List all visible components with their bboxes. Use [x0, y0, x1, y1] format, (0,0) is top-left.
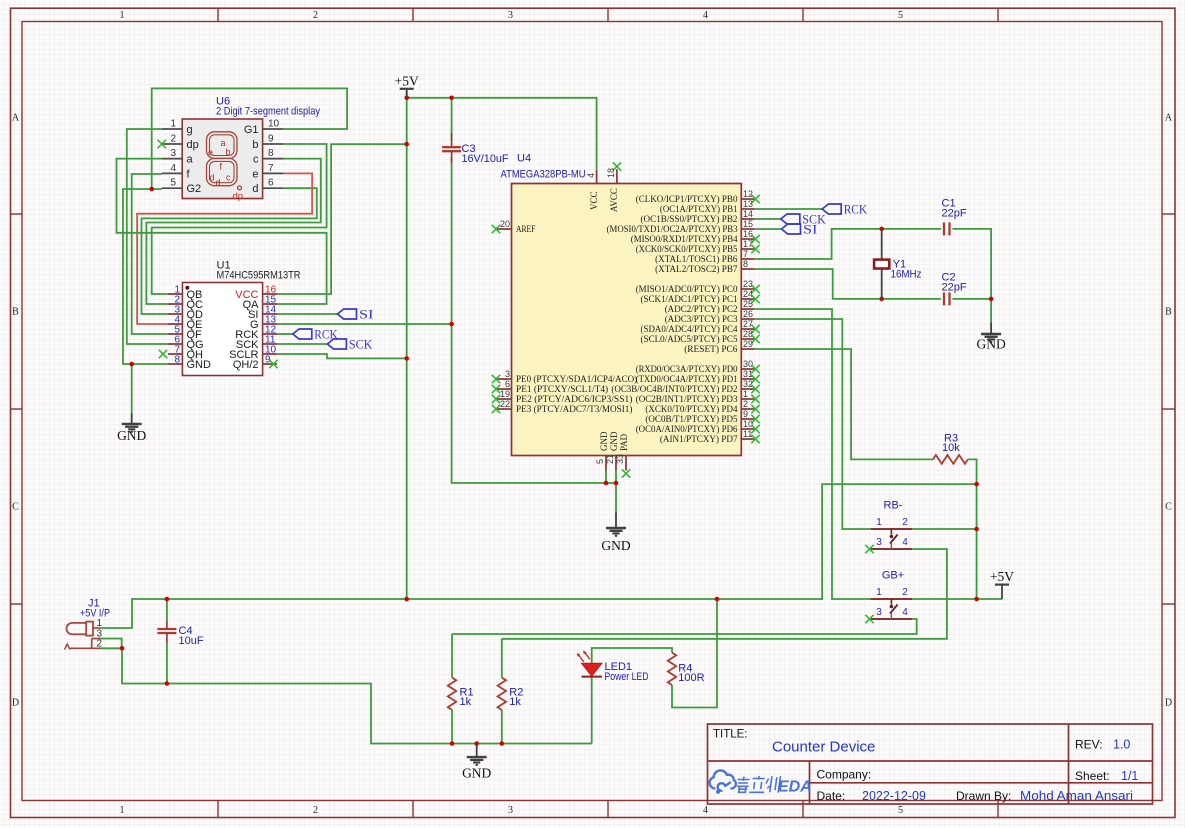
net flag SI at U1 [338, 309, 357, 319]
svg-text:4: 4 [703, 805, 708, 816]
U4 pin 7 PB6 [741, 258, 754, 260]
svg-text:D: D [12, 698, 19, 709]
push button RB- [871, 528, 913, 530]
U4 pin 24 PC1 [741, 298, 754, 300]
U6 pin 7 e [263, 172, 284, 174]
svg-text:(SDA0/ADC4/PTCY) PC4: (SDA0/ADC4/PTCY) PC4 [641, 324, 738, 335]
svg-text:1/1: 1/1 [1121, 769, 1138, 783]
svg-text:14: 14 [743, 209, 753, 219]
svg-text:1k: 1k [509, 696, 521, 708]
svg-text:+5V I/P: +5V I/P [80, 608, 110, 620]
U1 pin 4 QE [168, 323, 182, 325]
svg-text:(OC0B/T1/PTCXY) PD5: (OC0B/T1/PTCXY) PD5 [645, 414, 737, 425]
svg-text:16: 16 [743, 229, 753, 239]
wire U1.SCLR to +5V rail [277, 354, 407, 358]
U1 pin 6 QG [168, 343, 182, 345]
capacitor C1 22pF [943, 222, 945, 235]
U1 pin 7 QH [168, 353, 182, 355]
svg-text:17: 17 [743, 239, 753, 249]
svg-text:5: 5 [595, 459, 605, 464]
svg-text:16V/10uF: 16V/10uF [462, 153, 509, 165]
junction right +5V column / RB- [974, 527, 979, 532]
junction U1 GND node [129, 362, 134, 367]
wire RB- row wire from +5V column [912, 528, 976, 530]
svg-text:11: 11 [743, 429, 752, 439]
svg-text:dp: dp [187, 139, 199, 151]
LED1 Power LED [582, 663, 602, 676]
svg-text:1: 1 [876, 517, 882, 528]
svg-text:GND: GND [599, 431, 609, 451]
ground bus from J1 pins 2-3 [101, 639, 122, 649]
svg-text:Sheet:: Sheet: [1075, 769, 1110, 783]
svg-text:d: d [216, 178, 221, 188]
R1 leads [451, 634, 453, 678]
svg-text:(OC0A/AIN0/PTCXY) PD6: (OC0A/AIN0/PTCXY) PD6 [636, 424, 738, 435]
svg-text:b: b [252, 139, 258, 151]
svg-text:PE3 (PTCY/ADC7/T3/MOSI1): PE3 (PTCY/ADC7/T3/MOSI1) [516, 404, 632, 415]
U1 pin 12 RCK [263, 333, 277, 335]
capacitor C4 10uF [166, 621, 168, 630]
wire U1.SCK to flag [277, 343, 327, 345]
U4 pin 5 GND bottom [605, 456, 607, 471]
U1 pin 3 QD [168, 313, 182, 315]
svg-text:2: 2 [313, 10, 318, 21]
svg-text:(OC1B/SS0/PTCXY) PB2: (OC1B/SS0/PTCXY) PB2 [641, 214, 738, 225]
svg-text:dp: dp [233, 191, 244, 202]
svg-text:(XCK0/T0/PTCXY) PD4: (XCK0/T0/PTCXY) PD4 [645, 404, 737, 415]
svg-text:M74HC595RM13TR: M74HC595RM13TR [217, 270, 301, 282]
wire crystal bottom right of C2 [953, 298, 992, 300]
wire U1.G to C3 ground rail [277, 323, 452, 325]
U6 pin 5 G2 [162, 187, 182, 189]
svg-text:SI: SI [359, 308, 374, 322]
svg-text:g: g [187, 124, 193, 136]
junction C3 top [449, 96, 454, 101]
crystal Y1 16MHz [881, 229, 883, 260]
junction U4 GND pin 21 [614, 481, 619, 486]
U1 M74HC595RM13TR shift register symbol [182, 283, 262, 376]
svg-text:22pF: 22pF [942, 208, 967, 220]
U4 pin 8 PB7 [741, 268, 754, 270]
U1 QH no-connect X [159, 350, 167, 358]
svg-text:26: 26 [743, 309, 753, 319]
ground symbol bottom bus [476, 744, 478, 758]
junction right +5V column / bus [974, 482, 979, 487]
U4 pin 19 PE2 [497, 398, 512, 400]
capacitor C2 22pF [943, 292, 945, 305]
junction R2 / gnd bus [500, 741, 505, 746]
wire U6.c to U1.QC [146, 159, 320, 304]
wire U6.f to U1.QF [132, 174, 168, 334]
svg-text:22: 22 [500, 399, 510, 409]
svg-text:19: 19 [500, 389, 510, 399]
svg-text:4: 4 [703, 10, 708, 21]
net flag RCK at U1 [293, 329, 312, 339]
wire U4.XTAL1 to crystal top [755, 229, 941, 259]
title block [708, 724, 1153, 804]
wire U4.PC2 to GB+ pin1 [755, 309, 871, 599]
svg-text:(ADC3/PTCY) PC3: (ADC3/PTCY) PC3 [665, 314, 738, 325]
junction gnd symbol / gnd bus [474, 741, 479, 746]
svg-text:C: C [1165, 502, 1172, 513]
U4 pin 6 PE1 [497, 388, 512, 390]
svg-text:16MHz: 16MHz [891, 269, 922, 281]
C3 lower rail down to U4 ground wire [452, 158, 616, 484]
svg-text:Counter Device: Counter Device [772, 739, 875, 756]
R2 leads [501, 639, 503, 678]
svg-text:8: 8 [174, 355, 180, 366]
svg-text:(RXD0/OC3A/PTCXY) PD0: (RXD0/OC3A/PTCXY) PD0 [636, 364, 738, 375]
U6 pin 6 d [263, 187, 284, 189]
svg-text:1.0: 1.0 [1113, 738, 1130, 752]
junction C4 bottom [165, 681, 170, 686]
svg-text:(MISO1/ADC0/PTCY) PC0: (MISO1/ADC0/PTCY) PC0 [636, 284, 738, 295]
svg-text:15: 15 [743, 219, 753, 229]
push button GB+ [871, 598, 913, 600]
svg-text:(MOSI0/TXD1/OC2A/PTCXY) PB3: (MOSI0/TXD1/OC2A/PTCXY) PB3 [607, 224, 738, 235]
svg-text:GND: GND [117, 428, 146, 443]
U1 pin 13 G [263, 323, 277, 325]
svg-text:8: 8 [743, 259, 748, 269]
resistor R2 1k [498, 678, 506, 710]
svg-text:(RESET) PC6: (RESET) PC6 [684, 344, 738, 355]
wire RB- pin4 down to R2 [502, 549, 947, 639]
svg-text:C: C [12, 502, 19, 513]
wire U6.a to U1.QA [117, 159, 327, 304]
capacitor C3 16V/10uF [451, 133, 453, 147]
svg-text:2: 2 [170, 134, 176, 145]
junction bus / R4 branch [715, 597, 720, 602]
svg-text:1: 1 [96, 618, 102, 629]
U4 pin 30 PD0 [741, 368, 754, 370]
svg-text:3: 3 [508, 10, 513, 21]
U1 QH/2 no-connect X [269, 360, 277, 368]
svg-text:(TXD0/OC4A/PTCXY) PD1: (TXD0/OC4A/PTCXY) PD1 [636, 374, 738, 385]
wire GB+ pin2 to +5V junction and symbol [912, 598, 1002, 600]
U1 pin 10 SCLR [263, 353, 277, 355]
svg-text:3: 3 [876, 537, 882, 548]
svg-text:B: B [1165, 307, 1172, 318]
U4 pin 31 PD1 [741, 378, 754, 380]
U4 pin 21 GND bottom [615, 456, 617, 471]
svg-text:33: 33 [615, 454, 625, 464]
svg-text:3: 3 [505, 369, 510, 379]
svg-text:7: 7 [743, 249, 748, 259]
svg-text:U4: U4 [517, 153, 531, 165]
svg-text:RCK: RCK [844, 203, 868, 217]
svg-text:1: 1 [170, 119, 176, 130]
svg-text:(SCL0/ADC5/PTCY) PC5: (SCL0/ADC5/PTCY) PC5 [641, 334, 738, 345]
svg-text:10: 10 [743, 419, 753, 429]
svg-text:c: c [226, 173, 231, 183]
svg-text:GND: GND [601, 538, 630, 553]
junction +5V rail / bottom bus [404, 597, 409, 602]
wire U6.d to U1.QD [142, 188, 317, 314]
resistor R1 1k [448, 678, 456, 710]
svg-text:1: 1 [120, 805, 125, 816]
wire U1.RCK to flag [277, 333, 293, 335]
svg-text:+5V: +5V [990, 569, 1014, 584]
ground symbol below U1 [131, 414, 133, 424]
svg-text:d: d [252, 183, 258, 195]
svg-text:VCC: VCC [589, 191, 599, 210]
svg-text:GND: GND [462, 766, 491, 781]
svg-text:A: A [1165, 113, 1173, 124]
svg-text:(XTAL2/TOSC2) PB7: (XTAL2/TOSC2) PB7 [655, 264, 738, 275]
svg-text:REV:: REV: [1075, 738, 1103, 752]
svg-text:2 Digit 7-segment display: 2 Digit 7-segment display [216, 106, 320, 118]
C3 upper lead wire [451, 98, 453, 141]
svg-text:9: 9 [268, 134, 274, 145]
U6 pin 10 G1 [263, 128, 284, 130]
svg-text:PAD: PAD [619, 433, 629, 451]
U4 pin 4 VCC top [596, 169, 598, 183]
U1 pin 5 QF [168, 333, 182, 335]
svg-text:1: 1 [876, 587, 882, 598]
svg-text:6: 6 [505, 379, 510, 389]
U6 pin 9 b [263, 143, 284, 145]
net flag RCK at U4 PB1 [822, 204, 841, 214]
junction C4 top [165, 597, 170, 602]
svg-text:25: 25 [743, 299, 753, 309]
svg-text:Mohd Aman Ansari: Mohd Aman Ansari [1020, 789, 1133, 803]
svg-text:PE0 (PTCXY/SDA1/ICP4/ACO): PE0 (PTCXY/SDA1/ICP4/ACO) [516, 374, 637, 385]
svg-text:100R: 100R [678, 672, 704, 684]
svg-text:c: c [253, 154, 259, 166]
red wire U6.e to U1.QE [137, 173, 312, 324]
svg-text:5: 5 [898, 805, 903, 816]
U4 pin 12 PB0 [741, 198, 754, 200]
U1 gnd symbol drop [131, 364, 133, 414]
svg-text:GND: GND [609, 431, 619, 451]
U1 pin 14 SI [263, 313, 277, 315]
svg-text:(XCK0/SCK0/PTCXY) PB5: (XCK0/SCK0/PTCXY) PB5 [636, 244, 738, 255]
svg-text:(OC2B/INT1/PTCXY) PD3: (OC2B/INT1/PTCXY) PD3 [636, 394, 738, 405]
svg-text:4: 4 [902, 607, 908, 618]
U4 gnd symbol drop [615, 483, 617, 513]
U4 pin 9 PD5 [741, 418, 754, 420]
U4 pin 14 PB2 [741, 218, 754, 220]
svg-text:28: 28 [743, 329, 753, 339]
svg-text:TITLE:: TITLE: [713, 729, 748, 741]
wire U6.g to U1.QG [127, 129, 168, 344]
junction +5V rail / VCC branch [404, 142, 409, 147]
svg-text:(MISO0/RXD1/PTCXY) PB4: (MISO0/RXD1/PTCXY) PB4 [631, 234, 738, 245]
svg-text:21: 21 [605, 454, 615, 464]
U4 pin 29 PC6 [741, 348, 754, 350]
svg-text:GB+: GB+ [882, 570, 904, 582]
U4 pin 33 PAD bottom [625, 456, 627, 471]
junction right +5V column / GB+ [974, 597, 979, 602]
svg-text:10k: 10k [942, 442, 960, 454]
wire U4.PB1 to RCK flag [755, 208, 823, 210]
junction +5V rail / SCLR [404, 356, 409, 361]
svg-text:2: 2 [96, 639, 102, 650]
svg-text:GND: GND [187, 359, 212, 371]
LED top wire over to R4 and down to bus junction [592, 648, 672, 663]
svg-text:2: 2 [743, 399, 748, 409]
U6 dp no-connect X [158, 140, 166, 148]
svg-text:GND: GND [976, 337, 1005, 352]
svg-text:22pF: 22pF [942, 282, 967, 294]
net flag SI at U4 PB3 [782, 224, 801, 234]
svg-text:(OC3B/OC4B/INT0/PTCXY) PD2: (OC3B/OC4B/INT0/PTCXY) PD2 [611, 384, 737, 395]
svg-text:27: 27 [743, 319, 753, 329]
svg-text:RB-: RB- [884, 500, 903, 512]
wire U4.PB2 to SCK flag [755, 218, 781, 220]
U6 pin 4 f [162, 172, 182, 174]
U4 pin 18 AVCC top [616, 169, 618, 183]
U1 pin 11 SCK [263, 343, 277, 345]
junction crystal top [879, 227, 884, 232]
U4 pin 15 PB3 [741, 228, 754, 230]
wire U4.PB3 to SI flag [755, 228, 782, 230]
U4 GND pin drops [605, 471, 607, 484]
+5V vertical rail down to bottom bus [406, 91, 408, 599]
svg-text:AVCC: AVCC [609, 188, 619, 212]
svg-text:(ADC2/PTCY) PC2: (ADC2/PTCY) PC2 [665, 304, 738, 315]
svg-text:QH/2: QH/2 [233, 359, 259, 371]
svg-text:(AIN1/PTCXY) PD7: (AIN1/PTCXY) PD7 [660, 434, 738, 445]
svg-text:(SCK1/ADC1/PTCY) PC1: (SCK1/ADC1/PTCY) PC1 [641, 294, 738, 305]
svg-text:a: a [187, 154, 194, 166]
wire U6.b to U1.QB [152, 144, 327, 294]
U4 pin 10 PD6 [741, 428, 754, 430]
U4 pin 1 PD3 [741, 398, 754, 400]
svg-text:24: 24 [743, 289, 753, 299]
svg-text:4: 4 [170, 163, 176, 174]
svg-text:PE2 (PTCY/ADC6/ICP3/SS1): PE2 (PTCY/ADC6/ICP3/SS1) [516, 394, 632, 405]
main +5V bus from J1 pin1 up over to right rail [101, 484, 977, 628]
svg-text:1: 1 [120, 10, 125, 21]
svg-text:PE1 (PTCXY/SCL1/T4): PE1 (PTCXY/SCL1/T4) [516, 384, 608, 395]
svg-text:2022-12-09: 2022-12-09 [862, 789, 926, 803]
U6 pin 8 c [263, 158, 284, 160]
svg-text:29: 29 [743, 339, 753, 349]
junction C2 gnd [989, 297, 994, 302]
U4 pin 25 PC2 [741, 308, 754, 310]
junction crystal bottom [879, 297, 884, 302]
U4 pin 16 PB4 [741, 238, 754, 240]
U1 pin 1 QB [168, 293, 182, 295]
wire U4.XTAL2 to crystal bottom [755, 269, 941, 299]
U4 pin 17 PB5 [741, 248, 754, 250]
svg-text:13: 13 [743, 199, 753, 209]
U4 pin 26 PC3 [741, 318, 754, 320]
svg-text:23: 23 [743, 279, 753, 289]
junction U4 GND pin 5 [604, 481, 609, 486]
svg-text:9: 9 [743, 409, 748, 419]
svg-text:31: 31 [743, 369, 753, 379]
net flag SCK at U4 PB2 [781, 214, 800, 224]
U4 pin 20 AREF [497, 228, 512, 230]
crystal gnd drop [990, 299, 992, 323]
svg-text:(OC1A/PTCXY) PB1: (OC1A/PTCXY) PB1 [660, 204, 738, 215]
wire U1.SI to flag [277, 313, 338, 315]
junction G / C3 gnd rail [449, 322, 454, 327]
svg-text:e: e [252, 168, 258, 180]
JLC EDA logo [710, 770, 736, 790]
U6 2 digit 7-segment display symbol [182, 119, 262, 199]
U4 pin 32 PD2 [741, 388, 754, 390]
svg-text:Drawn By:: Drawn By: [956, 789, 1011, 803]
svg-text:ATMEGA328PB-MU: ATMEGA328PB-MU [501, 169, 586, 181]
svg-text:3: 3 [170, 148, 176, 159]
U1 pin 9 QH/2 [263, 363, 277, 365]
svg-text:AREF: AREF [516, 225, 535, 235]
C4 top lead [166, 599, 168, 621]
svg-text:3: 3 [508, 805, 513, 816]
wire R3 right to +5V column [968, 459, 977, 599]
svg-text:18: 18 [606, 168, 616, 178]
net flag SCK at U1 [327, 339, 346, 349]
C4 bottom lead [166, 644, 168, 684]
svg-text:SCK: SCK [349, 338, 373, 352]
svg-text:32: 32 [743, 379, 753, 389]
svg-text:3: 3 [876, 607, 882, 618]
svg-text:G2: G2 [187, 183, 202, 195]
U1 pin 15 QA [263, 303, 277, 305]
svg-text:+5V: +5V [395, 73, 419, 88]
svg-text:(CLKO/ICP1/PTCXY) PB0: (CLKO/ICP1/PTCXY) PB0 [636, 194, 738, 205]
U4 pin 27 PC4 [741, 328, 754, 330]
svg-text:4: 4 [902, 537, 908, 548]
svg-text:SI: SI [803, 223, 818, 237]
wire U4.PC3 to RB- pin1 [755, 319, 871, 529]
resistor R4 100R [668, 653, 676, 685]
svg-text:2: 2 [902, 587, 908, 598]
U4 pin 28 PC5 [741, 338, 754, 340]
svg-text:A: A [12, 113, 20, 124]
U4 pin 3 PE0 [497, 378, 512, 380]
svg-text:(XTAL1/TOSC1) PB6: (XTAL1/TOSC1) PB6 [655, 254, 738, 265]
svg-text:2: 2 [902, 517, 908, 528]
svg-text:D: D [1165, 698, 1172, 709]
junction J1 ground node [120, 646, 125, 651]
wire +5V rail to U4 VCC pin [407, 98, 597, 170]
svg-text:10: 10 [268, 119, 280, 130]
junction +5V rail top [404, 96, 409, 101]
svg-text:EDA: EDA [778, 779, 812, 796]
U4 pin 23 PC0 [741, 288, 754, 290]
svg-text:Company:: Company: [817, 768, 872, 782]
svg-text:5: 5 [170, 178, 176, 189]
wire GB+ pin4 down to R1 [452, 619, 917, 634]
svg-text:2: 2 [313, 805, 318, 816]
wire crystal top right of C1 [953, 229, 992, 299]
svg-text:1k: 1k [460, 696, 472, 708]
U4 pin 2 PD4 [741, 408, 754, 410]
wire U6.G1 loop to G2 node [152, 88, 347, 189]
svg-text:5: 5 [898, 10, 903, 21]
svg-text:Power LED: Power LED [605, 671, 649, 683]
svg-text:30: 30 [743, 359, 753, 369]
svg-text:B: B [12, 307, 19, 318]
svg-text:6: 6 [268, 178, 274, 189]
svg-text:12: 12 [743, 189, 753, 199]
U1 pin 2 QC [168, 303, 182, 305]
svg-text:4: 4 [586, 173, 596, 178]
U1 pin 8 GND [168, 363, 182, 365]
junction U6.G2 node [149, 187, 154, 192]
svg-text:8: 8 [268, 148, 274, 159]
wire U6.G2 to U1.GND pin8 [123, 189, 168, 364]
U6 pin 2 dp [162, 143, 182, 145]
svg-text:G1: G1 [244, 124, 259, 136]
svg-text:10uF: 10uF [179, 635, 204, 647]
U6 pin 1 g [162, 128, 182, 130]
svg-text:Date:: Date: [817, 789, 846, 803]
